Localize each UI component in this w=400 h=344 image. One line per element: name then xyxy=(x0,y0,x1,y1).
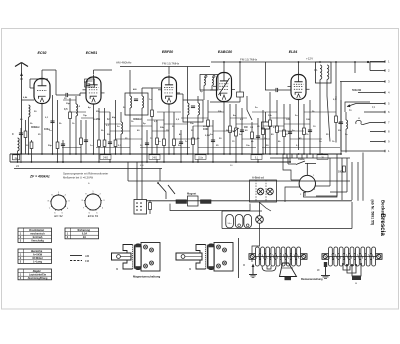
svg-text:C: C xyxy=(12,133,14,136)
wire right stair v347 xyxy=(346,158,348,192)
resistor R2 xyxy=(30,140,33,162)
coil assembly comb 2 xyxy=(322,247,382,266)
wire V3 anode top xyxy=(168,67,170,75)
volume potentiometer R17 xyxy=(233,104,239,162)
svg-text:ECH 81: ECH 81 xyxy=(88,214,99,218)
svg-text:70p: 70p xyxy=(83,115,87,117)
wire taste drop xyxy=(287,158,289,164)
resistor R19 xyxy=(262,110,265,154)
resistor R14 xyxy=(192,126,195,162)
wire vibr left loop2 xyxy=(285,187,291,202)
resistor R1 xyxy=(24,120,27,154)
terminal stub 5 xyxy=(370,102,390,106)
bus annotation labels xyxy=(100,155,328,167)
svg-text:+12V: +12V xyxy=(306,57,313,61)
terminal stub 6 xyxy=(370,110,390,114)
wire right staircase 1 xyxy=(345,102,370,112)
tube V5 EL84 envelope xyxy=(288,72,310,100)
capacitor C6 V2 inner xyxy=(84,82,90,86)
svg-text:1n: 1n xyxy=(107,118,110,121)
output transformer secondary xyxy=(327,65,330,142)
wire terminal 3 link xyxy=(340,81,370,83)
svg-text:110a: 110a xyxy=(198,157,204,159)
svg-text:M: M xyxy=(243,264,245,267)
IF transformer T2 box xyxy=(183,100,203,122)
wire mid horizontal y202 xyxy=(146,200,352,202)
resistor R11 xyxy=(156,120,159,162)
wire y158 segment xyxy=(270,157,350,159)
capacitor C11 xyxy=(240,108,244,154)
resistor R23 xyxy=(303,104,306,154)
coil L2 xyxy=(18,138,20,162)
capacitor C9 xyxy=(179,130,183,162)
svg-text:Riemenanstellung: Riemenanstellung xyxy=(301,278,323,281)
comb1 wire loops xyxy=(262,266,276,271)
svg-text:(ab Nr. 5891 55): (ab Nr. 5891 55) xyxy=(371,200,375,226)
legend solid AM xyxy=(70,254,90,258)
capacitor C15 xyxy=(308,100,312,154)
cathode resistor R22 xyxy=(283,104,286,154)
svg-text:Sicherung: Sicherung xyxy=(77,228,90,232)
svg-text:30p: 30p xyxy=(66,103,70,105)
choke L5 xyxy=(346,112,348,153)
svg-text:500mW: 500mW xyxy=(352,88,362,92)
label 2a terminal box xyxy=(13,155,20,160)
svg-text:Magnet: Magnet xyxy=(187,192,196,196)
wire V2 anode to IFT1 xyxy=(93,70,95,74)
wire left edge vertical xyxy=(9,154,11,162)
output transformer primary xyxy=(320,65,322,154)
capacitor C8 xyxy=(145,130,149,162)
svg-text:Brescia: Brescia xyxy=(379,214,386,237)
wire V4 cathode down xyxy=(223,102,225,155)
svg-text:300kHz: 300kHz xyxy=(31,126,40,129)
tube V4 EABC80 envelope xyxy=(213,70,235,102)
svg-text:10n: 10n xyxy=(246,145,250,147)
svg-text:2400: 2400 xyxy=(152,157,158,159)
output transformer T3 box xyxy=(316,62,332,83)
table 3 Regler xyxy=(18,269,52,280)
switch S3 xyxy=(168,185,175,194)
wire vibr left loop xyxy=(283,154,291,180)
switch S2 power xyxy=(157,182,166,199)
horizontal link wires in component band xyxy=(62,100,340,148)
svg-text:2400: 2400 xyxy=(103,157,109,159)
svg-text:A-Brid od: A-Brid od xyxy=(252,176,264,180)
resistor R15 xyxy=(207,100,210,154)
T2 primary coil xyxy=(188,67,190,155)
svg-text:AM: AM xyxy=(85,254,90,258)
mechanism M1 lever bar xyxy=(112,253,132,260)
wire stub1-stub2 corner xyxy=(369,62,371,71)
resistor R26 with drop xyxy=(237,61,244,102)
wire V5 anode top xyxy=(298,62,300,72)
switch S4 Taste xyxy=(288,157,316,165)
wire vibr rect right xyxy=(329,158,331,186)
svg-text:Drucktasten: Drucktasten xyxy=(29,228,44,232)
wire mid horizontal y181 xyxy=(128,180,350,182)
svg-text:Abstimmg/Klang: Abstimmg/Klang xyxy=(28,277,48,280)
tube V2 ECH81 envelope xyxy=(83,75,105,105)
wire stub to terminal 1 xyxy=(368,61,385,63)
wire top bus AM line xyxy=(211,61,368,63)
interference filter box xyxy=(250,180,277,202)
resistor R24 xyxy=(335,96,338,143)
wire drop x160 xyxy=(159,169,161,182)
wire drop x137 xyxy=(136,162,138,200)
oscillator coil L4 xyxy=(121,112,123,154)
terminal stub 10 xyxy=(370,149,390,153)
capacitor C10 xyxy=(211,120,215,162)
wire V1 grid left cap xyxy=(30,87,34,89)
ratio detector transformer T4 box xyxy=(200,75,218,101)
tube V3 EBF80 envelope xyxy=(158,75,180,105)
wire L1 down xyxy=(28,117,30,154)
svg-text:FM 10,7MHz: FM 10,7MHz xyxy=(162,62,180,66)
wire right stair v342 xyxy=(341,158,343,200)
terminal stub 7 xyxy=(370,121,390,125)
wire top bus FM line xyxy=(120,66,210,68)
comb2 center wires xyxy=(342,263,362,276)
vibrator circle xyxy=(291,163,330,196)
resistor R7 xyxy=(98,108,101,162)
wire V1 anode top xyxy=(41,70,43,76)
legend dashed FM xyxy=(70,259,90,263)
svg-text:ECH81: ECH81 xyxy=(86,51,98,55)
resistor R5 xyxy=(80,120,83,162)
svg-text:EBF80: EBF80 xyxy=(162,50,173,54)
wire x341 vertical link xyxy=(340,82,342,152)
capacitor C5 xyxy=(84,120,88,154)
magnet coil box xyxy=(187,192,198,207)
svg-text:0,5: 0,5 xyxy=(64,108,68,111)
svg-text:AM 460kHz: AM 460kHz xyxy=(116,61,132,65)
electrolytic can C19 xyxy=(235,215,243,228)
wire lamp to comb1 xyxy=(252,223,260,262)
svg-text:Spannungswerte mit Röhrenvoltm: Spannungswerte mit Röhrenvoltmeter xyxy=(63,172,108,176)
switch S1 AM-FM xyxy=(247,96,252,120)
resistor R6 inside box xyxy=(85,79,95,87)
svg-text:A=UKW: A=UKW xyxy=(33,253,43,256)
wire terminal 6 link xyxy=(364,111,370,113)
vertical drops from bus to mid xyxy=(286,154,288,158)
svg-text:FM: FM xyxy=(85,259,90,263)
capacitor block C22 xyxy=(262,112,270,154)
svg-text:Regler: Regler xyxy=(33,269,42,273)
wire V3 screen xyxy=(177,93,184,95)
vibrator socket box xyxy=(134,200,147,215)
resistor R4 xyxy=(69,98,72,154)
terminal stub 4 xyxy=(370,91,390,95)
svg-text:Bereiche: Bereiche xyxy=(31,249,43,253)
comb1 ground arrow xyxy=(249,264,257,278)
svg-text:460kHz: 460kHz xyxy=(133,118,142,121)
wire grid V1 xyxy=(22,99,35,101)
wire right stair v363 xyxy=(362,153,364,201)
T2 secondary coil xyxy=(198,96,200,162)
socket view ECH81 xyxy=(82,191,106,218)
svg-text:EL84: EL84 xyxy=(289,50,298,54)
mechanism diagram M2 xyxy=(196,243,233,272)
resistor R12 xyxy=(163,112,166,162)
resistor R3 xyxy=(56,100,59,162)
svg-text:10n: 10n xyxy=(190,123,194,125)
T1 primary coil xyxy=(130,70,132,154)
wire cans top bus xyxy=(222,210,262,212)
resistor R8 xyxy=(103,108,106,154)
svg-text:1M: 1M xyxy=(250,127,253,129)
comb1 horn speaker xyxy=(280,263,297,280)
junction dots on buses xyxy=(17,153,342,163)
buffer capacitor C17 xyxy=(149,200,152,214)
svg-text:EABC80: EABC80 xyxy=(218,50,232,54)
svg-text:Magnetumschaltung: Magnetumschaltung xyxy=(133,275,160,279)
svg-text:100k: 100k xyxy=(203,128,209,131)
svg-text:100u: 100u xyxy=(338,171,344,174)
wire V3 cathode down xyxy=(168,104,170,154)
divider line vertical xyxy=(238,238,240,278)
wire cans bottom bus xyxy=(222,228,352,230)
svg-text:Lautstärke/Ein: Lautstärke/Ein xyxy=(29,273,47,276)
svg-text:EC92: EC92 xyxy=(38,51,47,55)
choke CH2 xyxy=(201,200,212,204)
wire right stair v337 xyxy=(335,62,337,100)
svg-text:Taste: Taste xyxy=(298,157,305,161)
capacitor C12 xyxy=(256,118,260,162)
junction dots top line xyxy=(223,61,356,63)
capacitor C2 xyxy=(50,95,54,154)
resistor R21 xyxy=(276,100,279,154)
terminal stub 1 xyxy=(370,60,390,64)
svg-text:M: M xyxy=(189,267,191,271)
capacitor C7 xyxy=(108,112,112,162)
svg-text:M: M xyxy=(355,283,357,285)
wire V2 grid1 xyxy=(80,92,86,94)
svg-text:Umschaltg: Umschaltg xyxy=(31,240,44,243)
resistor R13 xyxy=(173,112,176,154)
antenna xyxy=(15,63,28,155)
table 1 Drucktastenaggregat xyxy=(18,228,52,243)
tube V1 EC92 envelope xyxy=(34,76,50,104)
svg-text:FM 10,7MHz: FM 10,7MHz xyxy=(240,58,258,62)
svg-text:25u: 25u xyxy=(338,123,342,125)
wire terminal 4 link xyxy=(358,92,370,94)
grid resistor R20 xyxy=(269,92,272,154)
table 2 Bereiche xyxy=(18,249,52,264)
coil L3 oscillator xyxy=(76,96,78,154)
wire v355 link xyxy=(354,62,356,73)
terminal stub 3 xyxy=(370,80,390,84)
terminal 7 S-curl xyxy=(356,118,370,125)
terminal stub 8 xyxy=(370,130,390,134)
fuse lamp F1 xyxy=(257,188,264,195)
wire drop x265 top xyxy=(265,62,267,90)
wire V1 cathode down xyxy=(41,104,43,155)
wire left drop to lamp xyxy=(20,154,22,163)
svg-text:M: M xyxy=(116,267,118,271)
svg-text:40p: 40p xyxy=(112,116,116,119)
choke CH1 xyxy=(176,200,187,204)
wire vibrator output loop xyxy=(304,192,338,197)
comb2 ground leg xyxy=(317,262,330,278)
wire right stair v352 xyxy=(351,162,353,200)
wire V5 cathode down xyxy=(298,100,300,151)
T1 secondary coil xyxy=(142,88,144,162)
coil L1 antenna xyxy=(29,105,31,117)
wire terminal 10 link xyxy=(341,150,370,152)
wire V4 anode top xyxy=(223,62,225,70)
svg-text:50p: 50p xyxy=(48,145,52,147)
terminal stub 2 xyxy=(370,69,390,73)
diode load resistor R16 xyxy=(229,104,232,154)
tone capacitor C16 xyxy=(339,100,343,154)
T2 tuning cap xyxy=(191,105,195,107)
svg-text:20k: 20k xyxy=(96,118,101,121)
diode arrow inside V4 xyxy=(219,78,230,95)
resistor R9 xyxy=(114,100,117,154)
mechanism M2 lever bar xyxy=(176,253,202,260)
electrolytic can C18 xyxy=(226,215,234,228)
svg-text:EC 92: EC 92 xyxy=(54,214,63,218)
capacitor C4 coupling xyxy=(56,93,80,97)
wire right stair v358 xyxy=(357,162,359,201)
trimmer C1 xyxy=(19,128,23,154)
wire drop x142 xyxy=(141,162,143,200)
wire chassis bus 2 xyxy=(10,161,291,163)
wire terminal 5 link with switch xyxy=(347,104,370,113)
table 4 Sicherung xyxy=(65,228,99,239)
wire chassis bus 1 xyxy=(10,153,341,155)
IF transformer T1 box xyxy=(125,93,148,115)
svg-text:1M: 1M xyxy=(244,126,247,129)
wire ratio detector link xyxy=(210,101,240,103)
node junction at top right xyxy=(367,61,369,63)
svg-text:Meßwerte bei U =6,3V/W: Meßwerte bei U =6,3V/W xyxy=(63,176,94,180)
dial lamp L6 xyxy=(256,202,264,223)
capacitor C3 xyxy=(61,140,65,163)
svg-text:2A: 2A xyxy=(83,236,86,239)
cathode bypass C14 xyxy=(288,104,292,162)
coil assembly comb 1 xyxy=(249,247,307,266)
component value labels scatter xyxy=(20,88,348,147)
terminal stub 9 xyxy=(370,140,390,144)
comb2 transformer block xyxy=(352,276,361,286)
socket view EC92 xyxy=(48,192,71,218)
wire T1 to V3 grid xyxy=(142,87,162,89)
svg-text:ZF = 460kHz: ZF = 460kHz xyxy=(29,175,50,179)
wire V4 grid xyxy=(210,89,217,91)
mechanism diagram M1 xyxy=(123,243,160,272)
svg-text:L=Lang: L=Lang xyxy=(33,261,42,264)
svg-text:0,1: 0,1 xyxy=(314,68,318,72)
wire diag from filter xyxy=(259,202,271,211)
T1 tuning capacitor xyxy=(134,99,138,101)
wire chassis bus 3 xyxy=(14,168,162,170)
resistor R10 xyxy=(151,88,154,154)
fuse lamp F2 xyxy=(267,188,274,195)
electrolytic can C20 xyxy=(244,215,252,228)
wire magnet loop xyxy=(170,204,250,211)
coupling capacitor C13 xyxy=(265,88,291,92)
wire V2 cathode down xyxy=(93,104,95,154)
resistor R25 100u xyxy=(338,166,345,174)
resistor R18 xyxy=(251,122,254,154)
svg-text:+: + xyxy=(88,182,90,186)
